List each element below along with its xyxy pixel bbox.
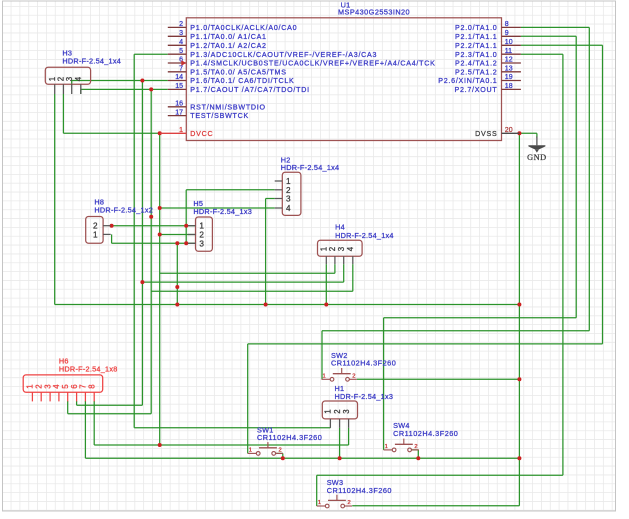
wire P2.2 drop to SW1 pin1 [247,344,249,454]
svg-text:15: 15 [175,83,183,90]
wire P2.2 vertical [602,45,604,344]
svg-text:1: 1 [318,500,321,506]
svg-text:2: 2 [35,384,44,388]
wire SW2 pin2 to GND [357,378,520,380]
svg-text:1: 1 [199,222,204,231]
U1 pin 16 stub [168,106,187,108]
U1 pin 18 stub [502,88,521,90]
wire P2.0 from U1 pin 8 [521,26,589,28]
switch SW4 [384,439,419,452]
svg-text:DVSS: DVSS [475,130,497,138]
H1 pin 3 stub [348,419,350,428]
svg-text:CR1102H4.3F260: CR1102H4.3F260 [331,359,396,368]
svg-text:HDR-F-2.54_1x3: HDR-F-2.54_1x3 [335,392,394,401]
svg-text:GND: GND [527,153,546,162]
junction H5.3/H2.2 link [184,241,188,245]
H3 pin 1 stub [54,84,56,94]
junction GND bus/H2.3 [264,303,268,307]
svg-text:8: 8 [505,21,509,28]
wire H1 pin2 drop [339,428,341,458]
svg-text:P2.5/TA1.2: P2.5/TA1.2 [455,68,497,76]
switch SW3 [317,495,352,508]
svg-text:HDR-F-2.54_1x4: HDR-F-2.54_1x4 [335,231,394,240]
svg-text:3: 3 [65,76,74,81]
U1 pin 10 stub [502,44,521,46]
wire DVSS junction to GND symbol [519,132,537,134]
junction GND bus/branch [175,303,179,307]
svg-text:13: 13 [505,66,513,73]
svg-text:2: 2 [333,409,342,413]
svg-text:20: 20 [505,127,513,134]
wire H3 pin4 riser [80,89,82,94]
svg-text:P2.0/TA1.0: P2.0/TA1.0 [455,24,497,32]
H8 pin 2 stub [103,225,111,227]
wire P1.3 to U1 pin 5 [134,53,168,55]
svg-text:4: 4 [179,39,183,46]
wire H3 pin2 to DVCC junction [63,132,159,134]
wire H2 pin3 horizontal [266,198,275,200]
wire H5 pin2 to DVCC [160,234,196,236]
wire H3 pin1 vertical [54,94,56,305]
svg-text:10: 10 [505,39,513,46]
svg-text:3: 3 [179,30,183,37]
svg-text:P1.2/TA0.1/ A2/CA2: P1.2/TA0.1/ A2/CA2 [190,42,266,50]
wire H2 pin2 vertical link [185,190,187,244]
wire P1.7 to H4 pin4 [151,290,353,292]
wire H6 pin6 to P1.6 [77,404,143,406]
wire H2 pin3 vertical [265,199,267,305]
H6 pin 6 stub [76,392,78,401]
U1 pin 9 stub [502,35,521,37]
H5 pin 2 stub [188,234,196,236]
U1 pin 5 stub [168,53,187,55]
wire H6 pin8 drop [93,401,95,445]
wire H6 pin5 to P1.7 [68,413,152,415]
U1 pin 11 stub [502,53,521,55]
svg-text:DVCC: DVCC [190,130,213,138]
svg-text:3: 3 [199,239,204,248]
H1 pin 2 stub [339,419,341,428]
U1 pin 6 stub [168,62,187,64]
svg-text:P1.1/TA0.0/ A1/CA1: P1.1/TA0.0/ A1/CA1 [190,33,266,41]
H4 pin 2 stub [334,256,336,264]
wire P2.3 from U1 pin 11 [521,53,563,55]
wire P2.1 horizontal [384,317,577,319]
header H1 body [322,401,357,419]
svg-text:7: 7 [179,66,183,73]
svg-text:5: 5 [179,48,183,55]
svg-text:2: 2 [348,500,351,506]
junction H3.3/P1.6 [140,79,144,83]
svg-text:14: 14 [175,74,183,81]
U1 pin 13 stub [502,71,521,73]
junction P1.6/H4.3 [140,280,144,284]
U1 pin 8 stub [502,26,521,28]
svg-text:4: 4 [74,76,83,81]
H6 pin 2 stub [40,392,42,401]
svg-text:4: 4 [346,246,355,251]
svg-text:16: 16 [175,101,183,108]
H6 pin 8 stub [93,392,95,401]
svg-text:18: 18 [505,83,513,90]
svg-text:P1.7/CAOUT /A7/CA7/TDO/TDI: P1.7/CAOUT /A7/CA7/TDO/TDI [190,86,309,94]
svg-text:4: 4 [286,204,291,213]
H6 pin 1 stub [31,392,33,401]
junction GND bus/DVSS [517,303,521,307]
wire H1 pin3 drop [348,428,350,445]
wire H4 pin1 drop to GND bus [325,264,327,304]
wire SW3 pin2 to GND [352,505,519,507]
U1 pin 19 stub [502,80,521,82]
junction DVSS pin20 [517,131,521,135]
wire H6 pin6 drop [76,401,78,405]
wire GND symbol drop [536,133,538,137]
svg-text:2: 2 [93,222,98,231]
header H3 body [45,67,90,84]
H3 pin 4 stub [80,84,82,94]
U1 pin 15 stub [168,88,187,90]
svg-text:1: 1 [48,77,57,81]
svg-text:1: 1 [249,447,252,453]
svg-text:5: 5 [61,384,70,389]
wire P2.0 drop to SW2 pin1 [321,331,323,380]
wire H4 pin4 drop [352,264,354,291]
wire H8 pin2 to H5 pin1 [110,225,196,227]
wire H3 pin3 riser [71,81,73,86]
svg-text:HDR-F-2.54_1x4: HDR-F-2.54_1x4 [281,163,340,172]
wire DVCC to H4 pin2 [160,272,335,274]
svg-text:2: 2 [414,444,417,450]
wire H2 pin2 horizontal [186,189,275,191]
wire H6 pin7 drop [84,401,86,458]
svg-text:1: 1 [93,230,98,239]
svg-text:P1.5/TA0.0/ A5/CA5/TMS: P1.5/TA0.0/ A5/CA5/TMS [190,68,286,76]
U1 pin 6 arrow marker [181,60,186,65]
switch SW1 [248,442,283,455]
junction SW2.2/GND [517,377,521,381]
wire GND bus horizontal [55,304,520,306]
H3 pin 2 stub [62,84,64,94]
wire GND bottom bus [85,457,519,459]
svg-text:1: 1 [385,444,388,450]
H2 pin 2 stub [275,189,283,191]
svg-text:HDR-F-2.54_1x2: HDR-F-2.54_1x2 [94,206,153,215]
H6 pin 7 stub [84,392,86,401]
U1 pin 14 stub [168,80,187,82]
svg-text:P1.0/TA0CLK/ACLK/A0/CA0: P1.0/TA0CLK/ACLK/A0/CA0 [190,24,297,32]
wire GND branch vertical [176,243,178,304]
junction GND bus/H4.1 [324,303,328,307]
svg-text:2: 2 [179,21,183,28]
H5 pin 1 stub [188,225,196,227]
junction GND/H5.3 [175,241,179,245]
wire H3 pin4 to U1 pin 15 [81,88,168,90]
svg-text:11: 11 [505,48,512,55]
wire SW1 pin2 drop [282,453,284,458]
junction SW1.2/GND [281,456,285,460]
svg-text:19: 19 [505,74,513,81]
svg-text:P2.7/XOUT: P2.7/XOUT [454,86,497,94]
wire P1.6 to H4 pin3 [142,281,343,283]
U1 pin 4 stub [168,44,187,46]
svg-text:CR1102H4.3F260: CR1102H4.3F260 [257,433,322,442]
junction DVCC/H5.2 [158,233,162,237]
svg-text:17: 17 [175,109,183,116]
wire H3 pin2 vertical [62,94,64,133]
header H2 body [282,172,301,215]
header H6 body [23,375,103,392]
wire P2.2 from U1 pin 10 [521,44,603,46]
wire DVCC bottom horizontal [94,444,348,446]
svg-text:P2.2/TA1.1: P2.2/TA1.1 [455,42,497,50]
junction SW4.2/GND [416,456,420,460]
switch SW2 [322,368,357,381]
svg-text:1: 1 [26,384,35,388]
svg-text:1: 1 [323,373,326,379]
wire P1.7 vertical segment [150,89,152,413]
wire P1.3 vertical segment [133,54,135,428]
wire P2.0 vertical [588,27,590,330]
svg-text:1: 1 [324,409,333,413]
svg-text:P2.6/XIN/TA0.1: P2.6/XIN/TA0.1 [438,77,497,85]
junction GND branch mid [175,285,179,289]
svg-text:3: 3 [43,384,52,389]
header H5 body [196,217,213,251]
svg-text:P2.3/TA1.0: P2.3/TA1.0 [455,51,497,59]
H5 pin 3 stub [188,242,196,244]
svg-text:TEST/SBWTCK: TEST/SBWTCK [190,112,249,120]
wire DVCC vertical segment [159,133,161,445]
wire H4 pin3 drop [343,264,345,282]
H3 pin 3 stub [71,84,73,94]
svg-text:RST/NMI/SBWTDIO: RST/NMI/SBWTDIO [190,103,265,111]
wire H4 pin2 drop [334,264,336,273]
U1 pin 2 stub [168,26,187,28]
wire H8 pin1 to H5 pin3 [112,242,196,244]
svg-text:MSP430G2553IN20: MSP430G2553IN20 [338,8,410,17]
U1 pin 7 stub [168,71,187,73]
wire P2.3 drop to SW3 pin1 [316,475,318,506]
svg-text:7: 7 [79,384,88,388]
junction DVCC bottom [158,443,162,447]
H1 pin 1 stub [329,419,331,428]
U1 pin 1 DVCC stub [160,132,187,134]
junction H8.2 [110,224,114,228]
H2 pin 3 stub [275,198,283,200]
H4 pin 4 stub [352,256,354,264]
svg-text:P1.6/TA0.1/ CA6/TDI/TCLK: P1.6/TA0.1/ CA6/TDI/TCLK [190,77,294,85]
wire SW4 pin2 link [411,449,418,451]
junction H5.1 [184,224,188,228]
H4 pin 3 stub [343,256,345,264]
svg-text:P1.4/SMCLK/UCB0STE/UCA0CLK/VRE: P1.4/SMCLK/UCB0STE/UCA0CLK/VREF+/VEREF+/… [190,60,435,68]
svg-text:1: 1 [286,177,291,186]
H6 pin 4 stub [58,392,60,401]
wire SW1 pin2 link [275,452,283,454]
wire P2.1 vertical [575,36,577,317]
svg-text:CR1102H4.3F260: CR1102H4.3F260 [327,486,392,495]
svg-text:6: 6 [70,384,79,389]
U1 pin 12 stub [502,62,521,64]
wire H6 pin5 drop [67,401,69,414]
junction DVCC pin1 [158,131,162,135]
wire P2.0 horizontal to SW2 [322,330,589,332]
wire P1.6 vertical segment [141,81,143,406]
U1 pin 20 DVSS stub [502,132,520,134]
junction H3.4/P1.7 [149,87,153,91]
svg-text:2: 2 [279,447,282,453]
wire P2.3 vertical [562,54,564,475]
wire H2 pin4 to DVCC [160,207,275,209]
svg-text:12: 12 [505,57,513,64]
wire GND net vertical [518,133,520,506]
svg-text:4: 4 [52,384,61,389]
svg-text:1: 1 [179,127,183,134]
svg-text:HDR-F-2.54_1x8: HDR-F-2.54_1x8 [59,364,118,373]
svg-text:3: 3 [342,409,351,414]
svg-text:9: 9 [505,30,509,37]
wire H8 pin1 drop [111,234,113,243]
svg-text:P2.1/TA1.1: P2.1/TA1.1 [455,33,497,41]
svg-text:P1.3/ADC10CLK/CAOUT/VREF-/VERE: P1.3/ADC10CLK/CAOUT/VREF-/VEREF-/A3/CA3 [190,51,377,59]
wire P2.1 from U1 pin 9 [521,35,576,37]
svg-text:2: 2 [199,231,204,240]
svg-text:3: 3 [337,246,346,251]
H8 pin 1 stub [103,233,111,235]
U1 pin 17 stub [168,115,187,117]
junction H1.2/GND [338,456,342,460]
junction DVCC/H2.4 [158,206,162,210]
svg-text:2: 2 [328,247,337,251]
junction P1.7 segment join [149,215,153,219]
svg-text:HDR-F-2.54_1x3: HDR-F-2.54_1x3 [193,207,252,216]
svg-text:P2.4/TA1.2: P2.4/TA1.2 [455,60,497,68]
svg-text:8: 8 [88,384,97,389]
U1 pin 3 stub [168,35,187,37]
svg-text:CR1102H4.3F260: CR1102H4.3F260 [393,429,458,438]
wire SW4 pin2 drop [417,450,419,458]
H6 pin 3 stub [49,392,51,401]
wire P2.2 horizontal [248,343,603,345]
svg-text:HDR-F-2.54_1x4: HDR-F-2.54_1x4 [62,56,121,65]
wire H3 pin3 to U1 pin 14 [72,80,168,82]
junction GND bottom/vertical [517,456,521,460]
IC U1 body [186,18,501,141]
ground symbol [536,137,538,146]
svg-text:2: 2 [352,373,355,379]
wire P2.1 drop to SW4 pin1 [383,318,385,450]
wire P1.3 to H1 pin1 [134,427,330,429]
H6 pin 5 stub [67,392,69,401]
svg-text:2: 2 [286,186,291,195]
H4 pin 1 stub [325,256,327,264]
svg-text:3: 3 [286,195,291,204]
header H8 body [86,217,103,244]
wire P2.3 horizontal [317,474,563,476]
H2 pin 1 stub [275,180,283,182]
header H4 body [318,240,363,256]
H2 pin 4 stub [275,207,283,209]
